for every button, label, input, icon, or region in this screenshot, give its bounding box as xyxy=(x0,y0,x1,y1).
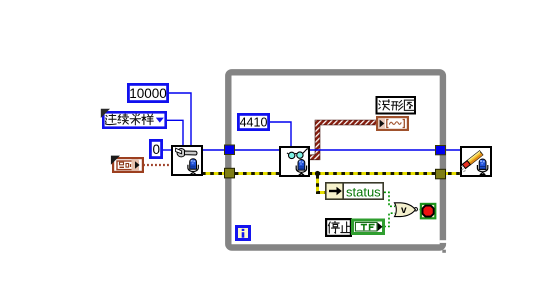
eraser xyxy=(462,151,483,169)
loop condition stop terminal xyxy=(421,204,435,218)
ring dropdown arrow xyxy=(156,118,164,123)
svg-text:0: 0 xyxy=(152,142,160,157)
indicator terminal waveform graph xyxy=(377,117,408,130)
DAQmx config node U1 xyxy=(172,146,202,175)
microphone xyxy=(188,159,198,175)
wire stop TF to OR gate (green dotted) xyxy=(384,213,395,226)
svg-text:10000: 10000 xyxy=(129,86,167,101)
unbundle by name status xyxy=(326,183,383,200)
label waveform graph xyxy=(377,97,416,114)
svg-text:4410: 4410 xyxy=(240,115,268,129)
char zhi xyxy=(341,222,353,233)
tunnel blue right xyxy=(436,146,446,155)
wrench xyxy=(177,149,185,157)
while loop border xyxy=(228,72,446,253)
boolean TF terminal xyxy=(353,220,384,234)
microphone xyxy=(296,160,306,176)
wire dynamic data U2 to waveform graph (hatched) xyxy=(310,123,377,158)
wire ring to U1 xyxy=(167,120,183,145)
wire 10000 to U1 xyxy=(169,93,191,145)
char cai xyxy=(130,114,140,125)
tunnel error right xyxy=(436,169,446,179)
boolean label stop xyxy=(326,219,352,236)
svg-text:status: status xyxy=(346,184,381,199)
DAQmx physical channel constant xyxy=(111,156,143,172)
wire 4410 to U2 xyxy=(270,122,291,147)
char ting xyxy=(328,221,339,233)
char xu xyxy=(118,114,128,124)
wire OR gate to loop condition terminal (green dotted) xyxy=(416,209,421,211)
char tu xyxy=(404,100,415,110)
constant 10000 xyxy=(128,84,167,101)
char bo xyxy=(379,100,390,110)
char lian xyxy=(105,114,116,124)
tunnel error left xyxy=(225,168,235,178)
ring constant continuous-sampling xyxy=(101,109,166,128)
wire task (blue) U1 to U3 across loop xyxy=(202,149,461,151)
wire channel constant to U1 (brown dotted) xyxy=(143,164,172,166)
DAQmx clear node U3 xyxy=(461,147,491,176)
constant 4410 xyxy=(238,114,268,129)
glasses xyxy=(289,152,295,158)
DAQmx read node U2 xyxy=(280,147,309,176)
tunnel blue left xyxy=(225,145,235,155)
or function xyxy=(395,203,416,217)
svg-text:v: v xyxy=(401,205,407,216)
wire status to OR gate (green dotted) xyxy=(384,192,395,206)
microphone xyxy=(477,159,487,175)
constant 0 xyxy=(150,140,161,157)
char yang xyxy=(142,114,153,125)
wire error U1 to U3 (yellow/black dashed) xyxy=(202,172,461,175)
junction dot on error wire xyxy=(315,171,320,176)
iteration terminal i xyxy=(237,227,250,240)
wire error branch to unbundle xyxy=(318,175,327,193)
wire 0 to U1 xyxy=(162,149,172,151)
char xing xyxy=(391,101,403,111)
OR output ring xyxy=(414,208,417,211)
